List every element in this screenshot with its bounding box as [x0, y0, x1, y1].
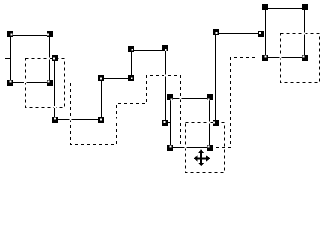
dashed drag ghost of rectangle C	[281, 34, 320, 83]
handle A bottom-right	[47, 80, 53, 86]
rectangle shape A (top-left, selected)	[11, 36, 50, 83]
handle A bottom-left	[7, 80, 13, 86]
wire polyline (zig-zag connector, drawn under rectangles)	[5, 34, 260, 123]
selection handles: polyline vertices	[52, 29, 264, 126]
dashed drag ghost of polyline	[71, 58, 259, 148]
handle C top-right	[302, 4, 308, 10]
handle B bottom-left	[167, 145, 173, 151]
vertex handle V2 (55,120)	[52, 117, 58, 123]
white XOR notches where dashed feedback crosses solid ink	[10, 32, 306, 149]
rectangle shape B (middle-bottom, selected)	[171, 99, 210, 148]
vertex handle V3 (101,120)	[98, 117, 104, 123]
selection handles: rectangle C corners	[262, 4, 308, 61]
selection handles: rectangle B corners	[167, 94, 213, 151]
vertex handle V9 (216,123)	[213, 120, 219, 126]
handle B bottom-right	[207, 145, 213, 151]
dashed drag ghost of rectangle B	[186, 123, 225, 173]
handle A top-right	[47, 31, 53, 37]
vertex handle V6 (131,49)	[128, 46, 134, 52]
vertex handle V10 (216,32)	[213, 29, 219, 35]
handle C top-left	[262, 4, 268, 10]
rectangle shape C (top-right, selected)	[266, 9, 305, 58]
vertex handle V11 endpoint (261,34)	[258, 31, 264, 37]
handle C bottom-left	[262, 55, 268, 61]
vertex handle V4 (101,78)	[98, 75, 104, 81]
handle B top-right	[207, 94, 213, 100]
vertex handle V8 (165,123)	[162, 120, 168, 126]
handle C bottom-right	[302, 55, 308, 61]
handle A top-left	[7, 31, 13, 37]
selection handles: rectangle A corners	[7, 31, 53, 86]
dashed drag ghost of rectangle A	[26, 59, 65, 108]
white pits inside handles	[53, 58, 55, 60]
move cursor (4-way arrows)	[194, 149, 211, 166]
vertex handle V7 (165,48)	[162, 45, 168, 51]
vertex handle V5 (131,78)	[128, 75, 134, 81]
vertex handle V1 (55,58)	[52, 55, 58, 61]
handle B top-left	[167, 94, 173, 100]
